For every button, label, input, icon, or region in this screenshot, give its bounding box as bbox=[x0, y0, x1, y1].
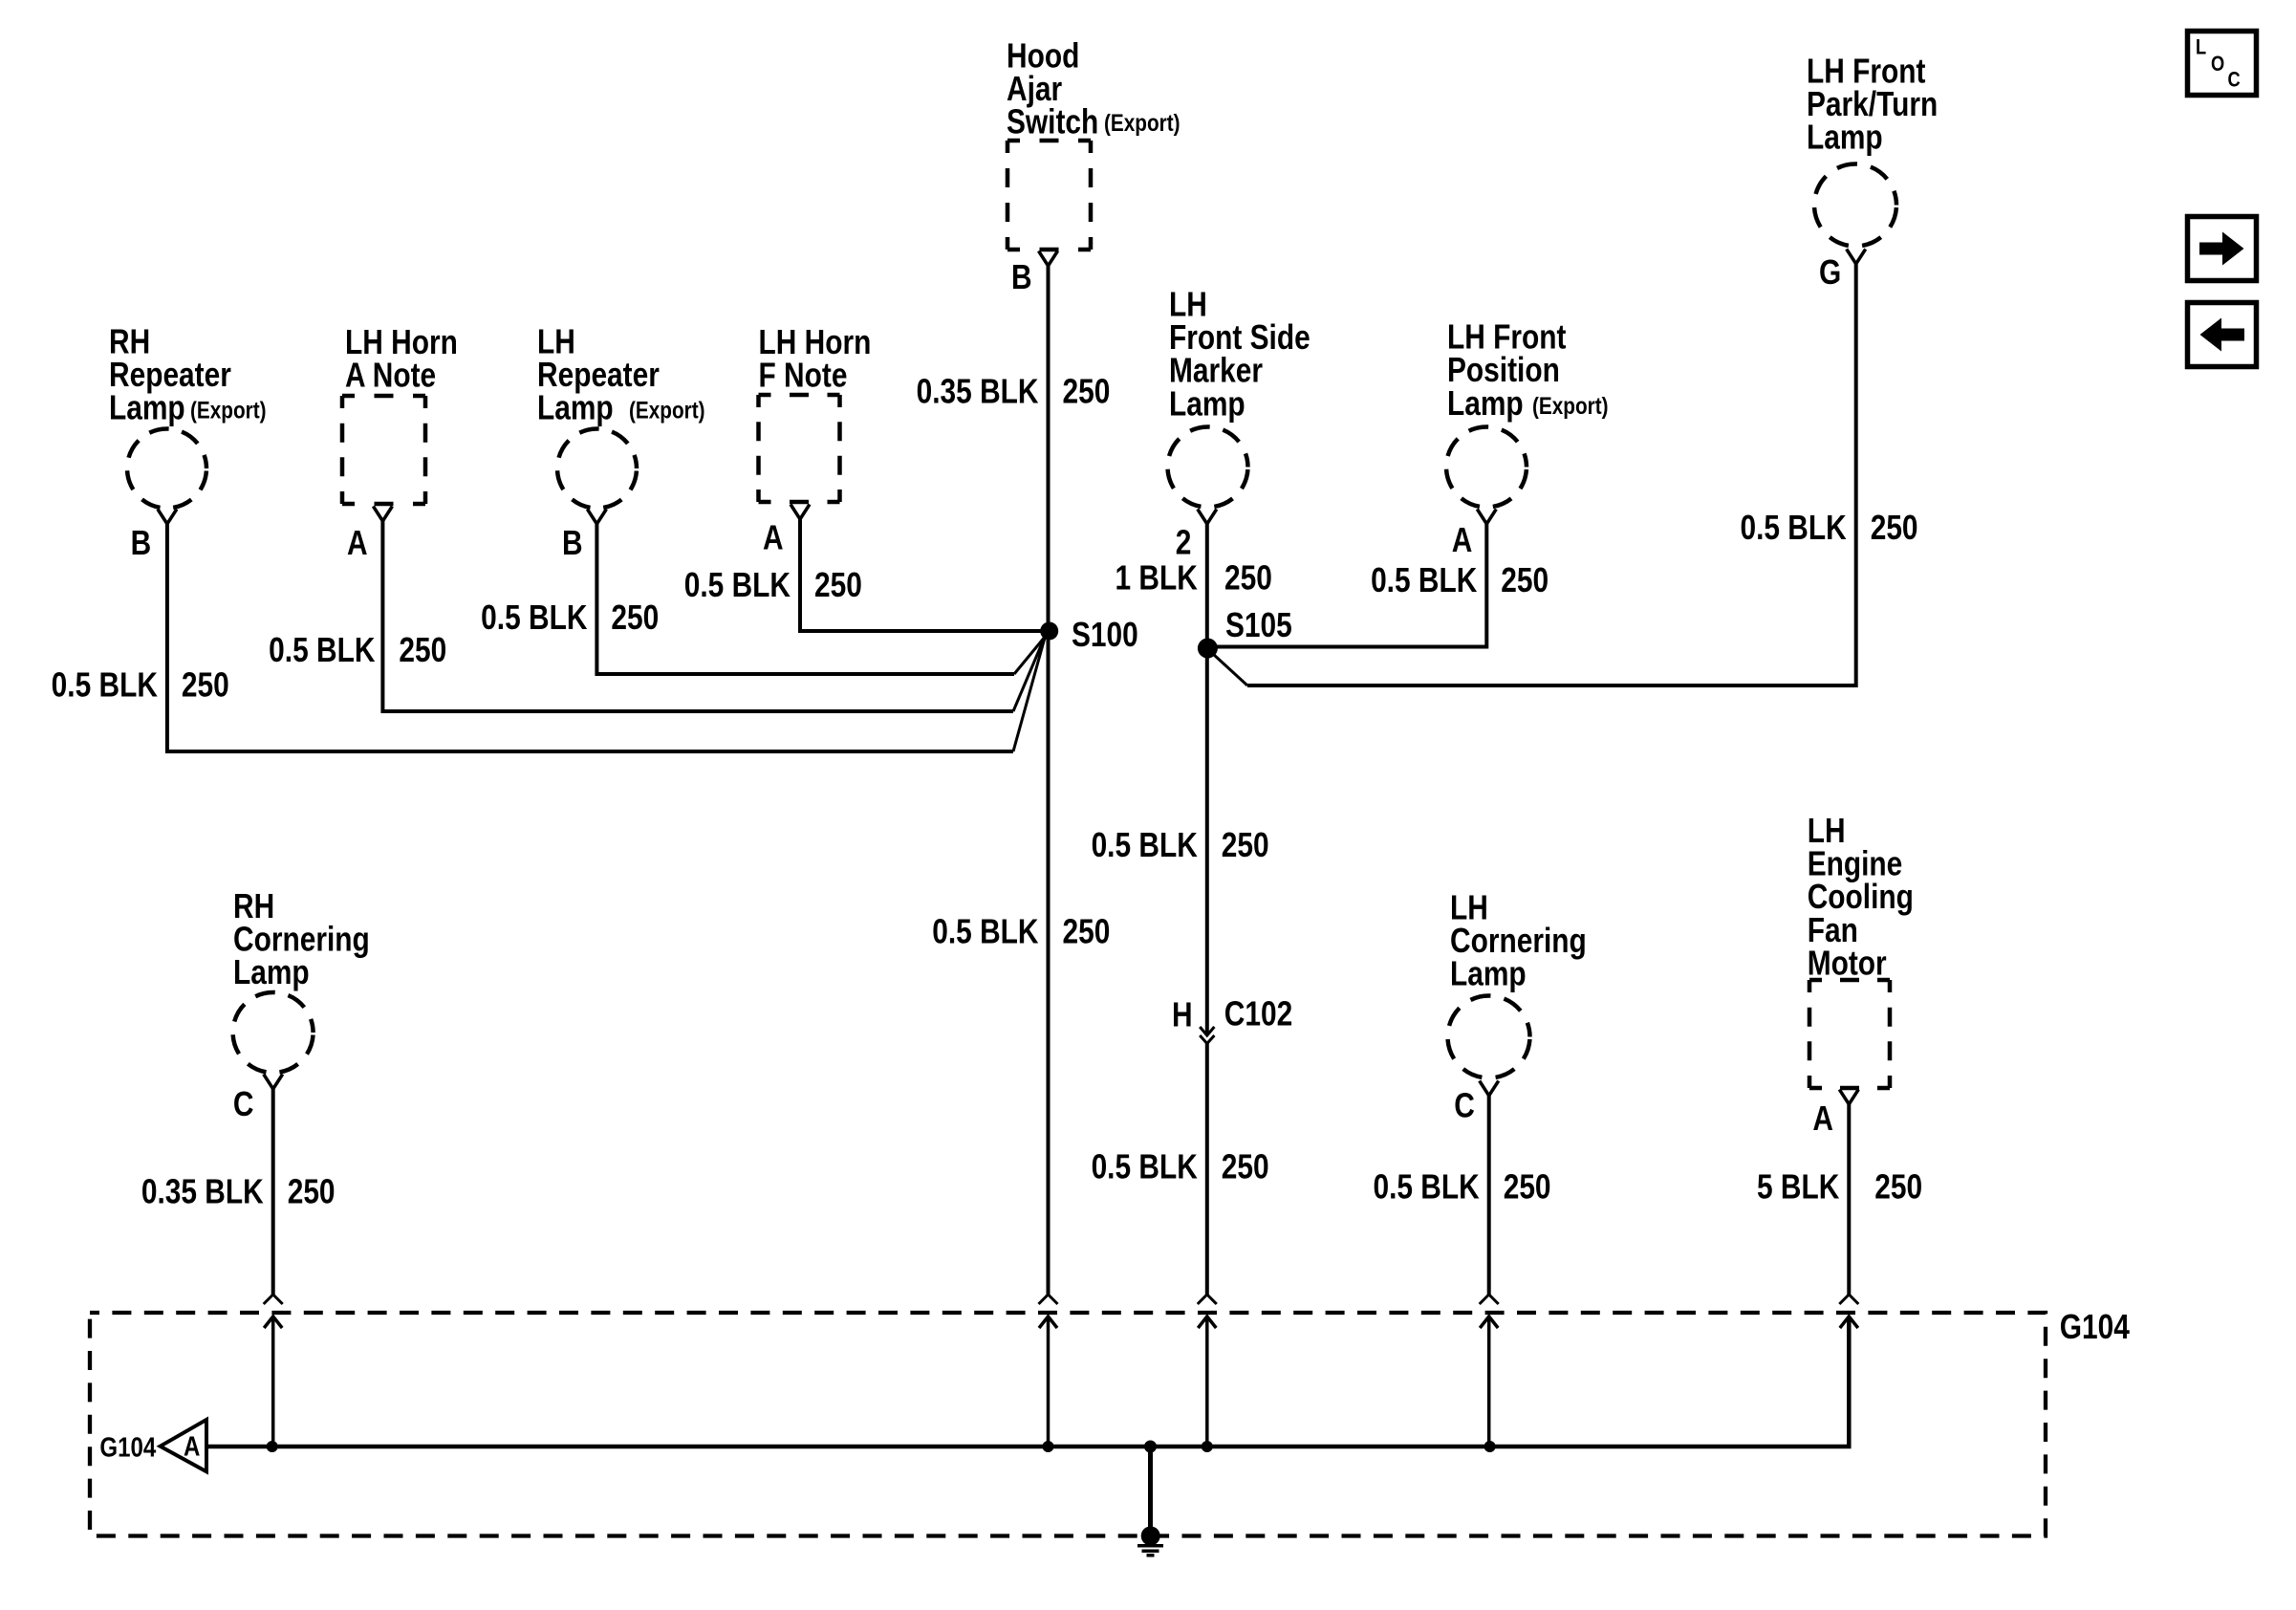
connector chevron at G104 (S105 trunk) bbox=[1198, 1295, 1217, 1304]
connector chevron at G104 (LH Cornering) bbox=[1480, 1295, 1499, 1304]
svg-text:0.5 BLK: 0.5 BLK bbox=[481, 598, 587, 637]
wire LH Horn F Note to S100 bbox=[800, 519, 1041, 631]
svg-text:250: 250 bbox=[1501, 561, 1549, 599]
wire label 0.5 BLK 250 (A Note) bbox=[269, 631, 446, 669]
connector arrow at G104 (Hood trunk) bbox=[1039, 1316, 1057, 1447]
wire diagonal A Note into S100 bbox=[1013, 637, 1045, 711]
connector fork Park/Turn pin G bbox=[1847, 250, 1866, 265]
label LH Engine Cooling Fan Motor bbox=[1808, 812, 1914, 983]
svg-text:250: 250 bbox=[1871, 509, 1918, 547]
lamp RH Cornering (dashed circle) bbox=[233, 992, 314, 1073]
wire RH Repeater to S100 bbox=[167, 524, 1013, 751]
connector chevron at G104 (Fan Motor) bbox=[1839, 1295, 1858, 1304]
svg-text:C: C bbox=[1454, 1087, 1475, 1125]
junction dot bus RH Cornering bbox=[267, 1441, 278, 1452]
wire label 0.5 BLK 250 (Park/Turn) bbox=[1740, 509, 1917, 547]
lamp LH Cornering (dashed circle) bbox=[1448, 996, 1530, 1078]
legend LOC letters bbox=[2196, 36, 2241, 92]
svg-text:Lamp: Lamp bbox=[1447, 384, 1524, 423]
lamp LH Front Side Marker (dashed circle) bbox=[1168, 427, 1248, 508]
svg-text:A Note: A Note bbox=[345, 357, 436, 395]
svg-text:Lamp: Lamp bbox=[233, 953, 310, 991]
wire LH Horn A Note to S100 bbox=[382, 521, 1013, 711]
svg-text:F Note: F Note bbox=[759, 357, 848, 395]
label LH Front Side Marker Lamp bbox=[1169, 286, 1310, 424]
ground terminal triangle G104 bbox=[161, 1420, 206, 1471]
lamp LH Front Park/Turn (dashed circle) bbox=[1814, 164, 1896, 247]
svg-text:S100: S100 bbox=[1072, 616, 1138, 654]
svg-text:Switch: Switch bbox=[1007, 103, 1098, 141]
svg-text:0.35 BLK: 0.35 BLK bbox=[917, 373, 1039, 411]
wire label 0.5 BLK 250 (above G104, marker trunk) bbox=[1092, 1148, 1269, 1186]
svg-text:250: 250 bbox=[399, 631, 446, 669]
svg-text:Motor: Motor bbox=[1808, 945, 1887, 983]
svg-text:(Export): (Export) bbox=[190, 397, 267, 424]
connector arrow at G104 (Fan Motor) bbox=[1840, 1316, 1858, 1328]
svg-text:B: B bbox=[131, 524, 152, 562]
horn LH F Note (dashed box) bbox=[759, 395, 840, 502]
svg-text:Lamp: Lamp bbox=[537, 389, 614, 427]
label LH Cornering Lamp bbox=[1450, 889, 1587, 993]
svg-text:0.5 BLK: 0.5 BLK bbox=[1371, 561, 1477, 599]
svg-text:0.5 BLK: 0.5 BLK bbox=[932, 913, 1038, 951]
connector chevron at G104 (Hood trunk) bbox=[1039, 1295, 1058, 1304]
connector fork Marker pin 2 bbox=[1198, 510, 1217, 525]
connector fork LH Cornering pin C bbox=[1480, 1081, 1499, 1097]
svg-text:G: G bbox=[1819, 253, 1841, 292]
svg-text:Lamp: Lamp bbox=[1807, 119, 1883, 157]
svg-text:Lamp: Lamp bbox=[109, 389, 185, 427]
connector arrow at G104 (S105 trunk) bbox=[1198, 1316, 1216, 1447]
wire Hood Ajar trunk down to G104 bbox=[1047, 266, 1051, 1295]
legend left-arrow bbox=[2200, 318, 2245, 352]
connector fork LH Horn F Note pin A bbox=[791, 505, 810, 520]
svg-text:250: 250 bbox=[1222, 826, 1269, 864]
svg-text:S105: S105 bbox=[1225, 606, 1292, 644]
svg-text:(Export): (Export) bbox=[1532, 392, 1609, 419]
svg-text:G104: G104 bbox=[2060, 1308, 2131, 1346]
wire LH Repeater to S100 bbox=[596, 524, 1014, 674]
wire Fan Motor down to G104 bbox=[1847, 1104, 1851, 1295]
lamp LH Front Position (dashed circle) bbox=[1446, 427, 1527, 508]
wire label 1 BLK 250 (Marker) bbox=[1115, 559, 1271, 598]
ground bus wire inside G104 bbox=[206, 1316, 1849, 1447]
wire label 0.5 BLK 250 (LH Cornering) bbox=[1373, 1168, 1550, 1207]
svg-text:0.5 BLK: 0.5 BLK bbox=[1373, 1168, 1479, 1207]
wire label 0.5 BLK 250 (Position) bbox=[1371, 561, 1549, 599]
ground block G104 (dashed box) bbox=[90, 1313, 2046, 1536]
label Hood Ajar Switch (Export) bbox=[1007, 37, 1180, 141]
wire label 0.5 BLK 250 (below S100) bbox=[932, 913, 1110, 951]
lamp RH Repeater (dashed circle) bbox=[127, 429, 206, 509]
svg-text:A: A bbox=[763, 519, 784, 557]
legend right-arrow box bbox=[2188, 217, 2257, 281]
svg-text:Lamp: Lamp bbox=[1169, 385, 1245, 424]
connector fork RH Cornering pin C bbox=[264, 1075, 283, 1090]
wire diagonal LH Repeater into S100 bbox=[1014, 636, 1046, 674]
svg-text:(Export): (Export) bbox=[1104, 109, 1180, 136]
switch Hood Ajar (dashed box) bbox=[1007, 141, 1091, 250]
connector fork Position pin A bbox=[1477, 510, 1496, 525]
splice S105 bbox=[1198, 639, 1218, 659]
label LH Front Position Lamp (Export) bbox=[1447, 318, 1609, 423]
svg-text:0.5 BLK: 0.5 BLK bbox=[1092, 1148, 1198, 1186]
connector arrow at G104 (LH Cornering) bbox=[1480, 1316, 1498, 1447]
junction dot bus LH Cornering bbox=[1484, 1441, 1496, 1452]
svg-text:C102: C102 bbox=[1224, 995, 1292, 1033]
wire Marker trunk to C102 bbox=[1205, 524, 1209, 1035]
label RH Repeater Lamp (Export) bbox=[109, 323, 267, 427]
svg-text:A: A bbox=[1452, 521, 1473, 559]
horn LH A Note (dashed box) bbox=[342, 396, 425, 504]
svg-text:C: C bbox=[233, 1085, 254, 1123]
svg-text:250: 250 bbox=[1504, 1168, 1551, 1207]
ground dot G104 bbox=[1141, 1527, 1160, 1546]
svg-text:0.5 BLK: 0.5 BLK bbox=[684, 566, 791, 604]
wire RH Cornering down to G104 bbox=[271, 1089, 275, 1295]
svg-text:B: B bbox=[1011, 258, 1032, 296]
wire label 0.5 BLK 250 (below S105) bbox=[1092, 826, 1269, 864]
wire label 0.5 BLK 250 (RH Repeater) bbox=[52, 666, 229, 705]
label RH Cornering Lamp bbox=[233, 887, 370, 991]
svg-text:Lamp: Lamp bbox=[1450, 955, 1527, 993]
wire label 0.5 BLK 250 (LH Repeater) bbox=[481, 598, 659, 637]
label LH Front Park/Turn Lamp bbox=[1807, 53, 1938, 157]
svg-text:O: O bbox=[2211, 54, 2224, 76]
svg-text:250: 250 bbox=[1874, 1168, 1922, 1207]
wire label 0.35 BLK 250 (Hood Ajar) bbox=[917, 373, 1111, 411]
svg-text:0.5 BLK: 0.5 BLK bbox=[1740, 509, 1846, 547]
legend LOC box bbox=[2188, 32, 2257, 96]
splice S100 bbox=[1040, 622, 1058, 641]
connector C102 female chevron bbox=[1200, 1035, 1214, 1044]
motor LH Engine Cooling Fan (dashed box) bbox=[1809, 980, 1890, 1088]
junction dot bus S105 trunk bbox=[1202, 1441, 1213, 1452]
connector fork RH Repeater pin B bbox=[158, 510, 177, 525]
svg-text:1 BLK: 1 BLK bbox=[1115, 559, 1197, 598]
svg-text:250: 250 bbox=[288, 1173, 336, 1211]
svg-text:250: 250 bbox=[1063, 913, 1111, 951]
wire LH Cornering down to G104 bbox=[1487, 1096, 1491, 1295]
svg-text:0.5 BLK: 0.5 BLK bbox=[269, 631, 375, 669]
svg-text:(Export): (Export) bbox=[629, 397, 705, 424]
svg-text:250: 250 bbox=[1224, 559, 1272, 598]
svg-text:250: 250 bbox=[1222, 1148, 1269, 1186]
ground symbol lines bbox=[1137, 1546, 1163, 1556]
svg-text:250: 250 bbox=[611, 598, 659, 637]
svg-text:A: A bbox=[184, 1430, 200, 1462]
legend left-arrow box bbox=[2188, 303, 2257, 367]
svg-text:250: 250 bbox=[814, 566, 862, 604]
connector C102 male arrow bbox=[1200, 1027, 1214, 1035]
svg-text:A: A bbox=[1812, 1099, 1833, 1138]
svg-text:0.35 BLK: 0.35 BLK bbox=[141, 1173, 264, 1211]
wire label 0.5 BLK 250 (F Note) bbox=[684, 566, 862, 604]
junction dot bus ground stub bbox=[1144, 1441, 1157, 1453]
wire diagonal RH Repeater into S100 bbox=[1013, 638, 1045, 751]
svg-text:B: B bbox=[562, 524, 583, 562]
wire label 0.35 BLK 250 (RH Cornering) bbox=[141, 1173, 336, 1211]
wire label 5 BLK 250 (Fan Motor) bbox=[1757, 1168, 1922, 1207]
label LH Repeater Lamp (Export) bbox=[537, 323, 705, 427]
connector fork Hood Ajar pin B bbox=[1039, 251, 1058, 267]
svg-text:L: L bbox=[2196, 36, 2206, 59]
wire Position to S105 bbox=[1209, 524, 1486, 647]
lamp LH Repeater (dashed circle) bbox=[557, 429, 637, 509]
svg-text:2: 2 bbox=[1176, 524, 1192, 562]
label LH Horn F Note bbox=[759, 323, 872, 395]
connector fork LH Horn A Note pin A bbox=[373, 507, 392, 522]
connector arrow at G104 (RH Cornering) bbox=[264, 1316, 282, 1447]
svg-text:250: 250 bbox=[1063, 373, 1111, 411]
wire ground stub bbox=[1148, 1447, 1153, 1528]
svg-text:C: C bbox=[2228, 69, 2242, 92]
svg-text:5 BLK: 5 BLK bbox=[1757, 1168, 1839, 1207]
wire diagonal Park/Turn into S105 bbox=[1213, 654, 1247, 685]
junction dot bus Hood trunk bbox=[1043, 1441, 1054, 1452]
svg-text:H: H bbox=[1172, 996, 1193, 1034]
svg-text:G104: G104 bbox=[99, 1431, 156, 1463]
svg-text:A: A bbox=[347, 524, 368, 562]
wire S105 trunk below C102 bbox=[1205, 1044, 1209, 1295]
connector chevron at G104 (RH Cornering) bbox=[264, 1295, 283, 1304]
legend right-arrow bbox=[2199, 232, 2244, 266]
label LH Horn A Note bbox=[345, 323, 458, 395]
svg-text:0.5 BLK: 0.5 BLK bbox=[1092, 826, 1198, 864]
svg-text:250: 250 bbox=[182, 666, 229, 705]
connector fork LH Repeater pin B bbox=[587, 510, 606, 525]
svg-text:0.5 BLK: 0.5 BLK bbox=[52, 666, 158, 705]
connector fork Fan Motor pin A bbox=[1839, 1090, 1858, 1105]
wire Park/Turn down and left to S105 bbox=[1247, 264, 1856, 685]
